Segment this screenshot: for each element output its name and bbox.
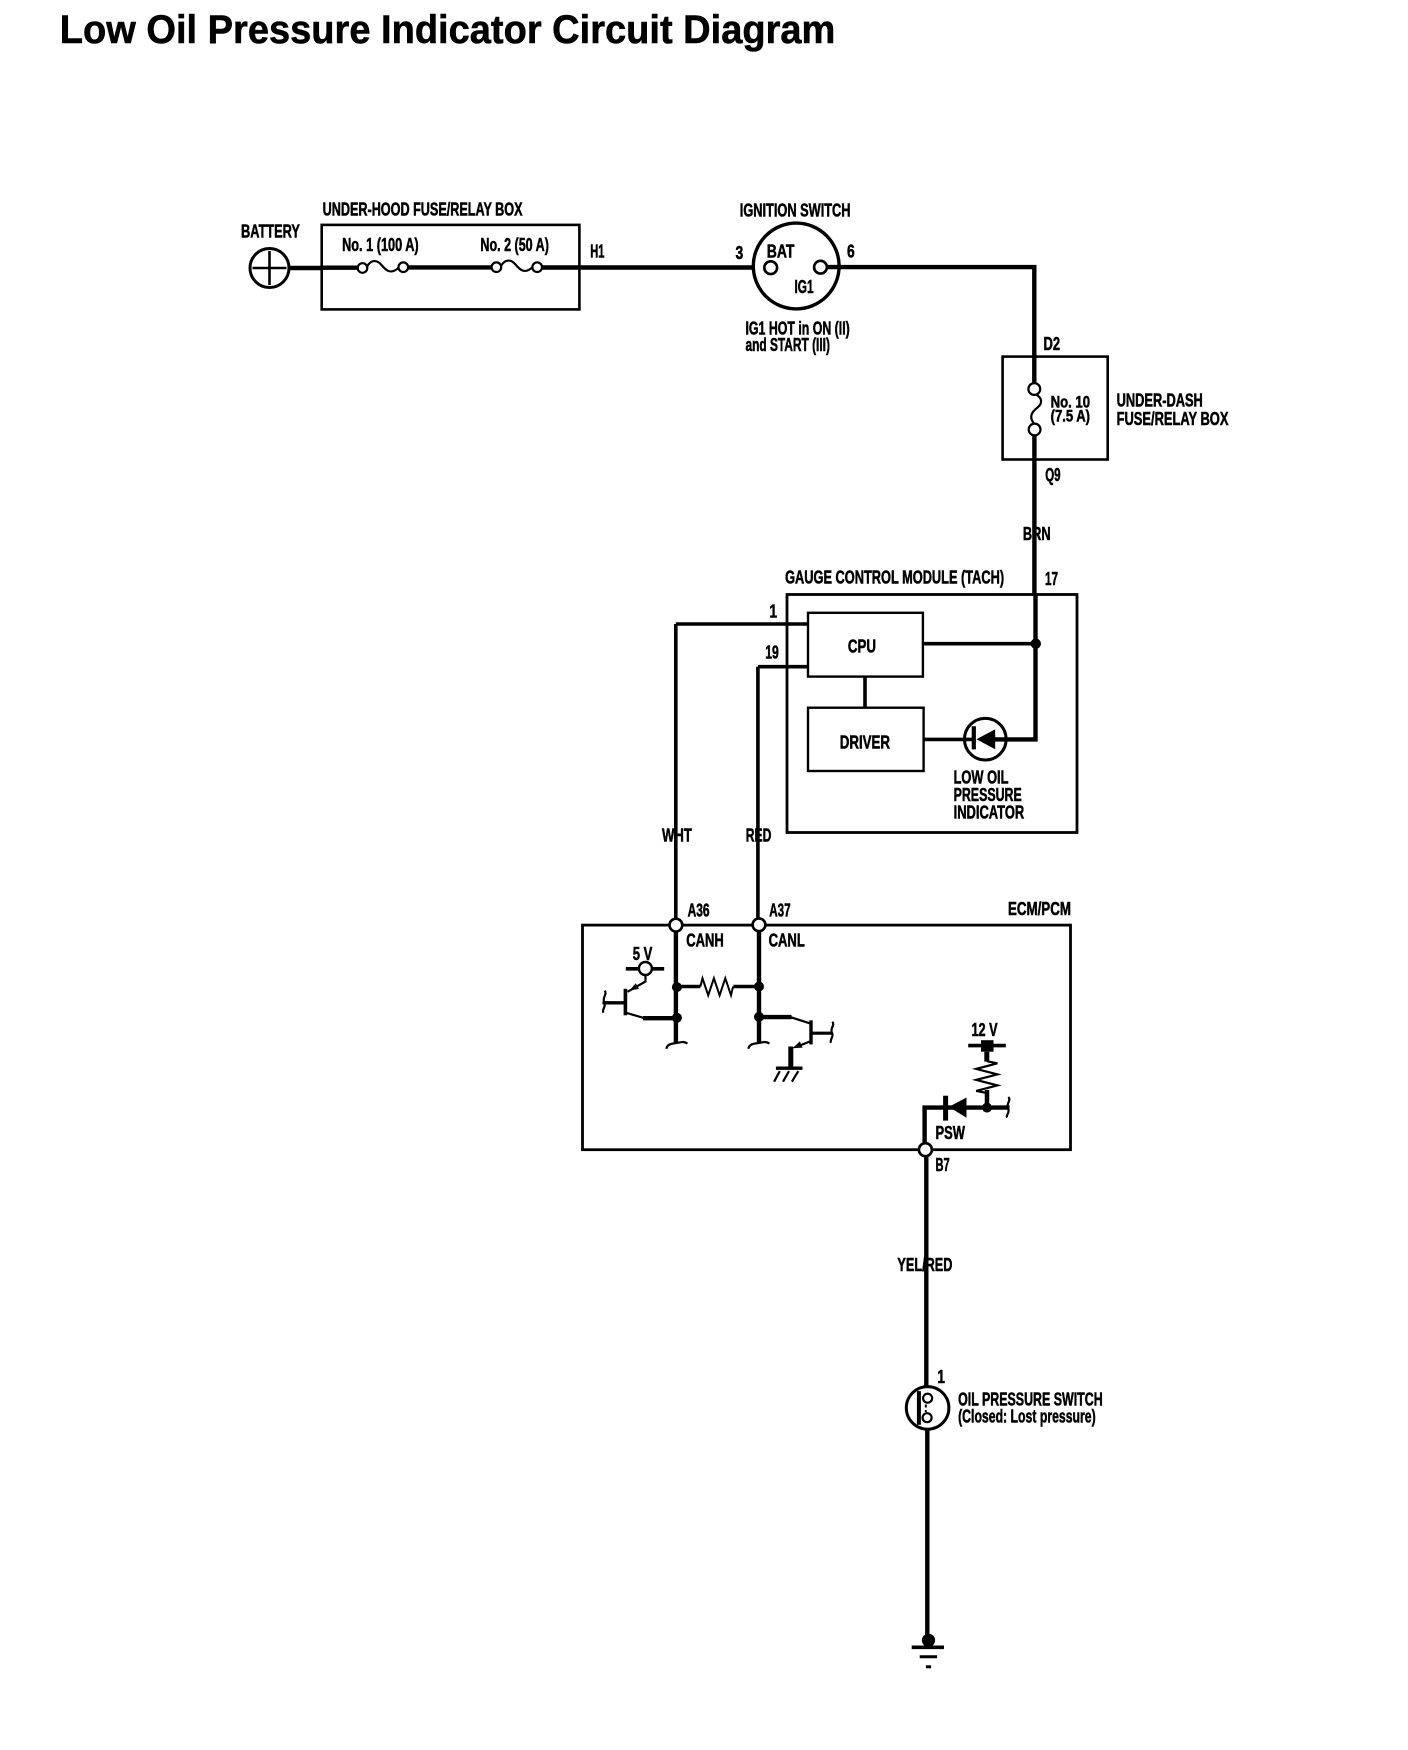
terminal A36 — [670, 919, 683, 932]
svg-text:(7.5 A): (7.5 A) — [1051, 408, 1090, 426]
resistor 12V pull-up — [976, 1052, 997, 1106]
CANL stub termination — [748, 1042, 769, 1049]
svg-text:BAT: BAT — [767, 242, 795, 262]
svg-text:PSW: PSW — [936, 1124, 966, 1144]
PSW stub termination — [1007, 1097, 1010, 1118]
battery — [250, 249, 289, 288]
fuse No.1 (100 A) — [358, 261, 408, 273]
junction dot CANL lower — [754, 1012, 764, 1022]
wire PSW net — [925, 1108, 1010, 1143]
svg-text:FUSE/RELAY BOX: FUSE/RELAY BOX — [1117, 410, 1229, 430]
CPU block — [808, 613, 923, 677]
wire pin 17 down to indicator LED — [995, 595, 1036, 740]
wire CANH internal — [674, 932, 678, 1044]
ignition switch terminal BAT — [764, 261, 777, 274]
svg-text:(Closed: Lost pressure): (Closed: Lost pressure) — [958, 1407, 1096, 1427]
svg-text:BRN: BRN — [1023, 525, 1051, 545]
svg-text:DRIVER: DRIVER — [840, 733, 891, 754]
terminal B7 (PSW) — [919, 1143, 932, 1156]
5 V supply symbol — [626, 962, 664, 975]
wire between fuses — [408, 265, 492, 269]
svg-text:GAUGE CONTROL MODULE (TACH): GAUGE CONTROL MODULE (TACH) — [785, 568, 1004, 588]
CANH stub termination — [666, 1042, 687, 1049]
svg-text:12 V: 12 V — [972, 1021, 998, 1041]
junction dot CANL upper — [754, 982, 764, 992]
svg-text:WHT: WHT — [662, 825, 692, 846]
wire transistor emitter to CANH — [643, 1016, 677, 1020]
wire CPU to pin-17 net — [923, 642, 1036, 646]
svg-text:1: 1 — [769, 602, 777, 622]
svg-text:YEL/RED: YEL/RED — [897, 1256, 952, 1276]
svg-text:UNDER-HOOD FUSE/RELAY BOX: UNDER-HOOD FUSE/RELAY BOX — [323, 200, 523, 220]
wire transistor emitter to ground — [788, 1047, 793, 1067]
wire RED: CPU pin 19 down to ECM A37 — [756, 667, 760, 919]
svg-text:RED: RED — [746, 826, 772, 846]
transistor CANL driver — [761, 1017, 833, 1048]
wire WHT: CPU pin 1 down to ECM A36 — [674, 624, 678, 919]
wire fuse No.10 to gauge module pin 17 — [1032, 435, 1036, 596]
svg-text:3: 3 — [736, 243, 744, 263]
svg-text:IG1: IG1 — [795, 278, 814, 298]
wire battery to fuse box — [289, 266, 323, 270]
low oil pressure indicator LED U-lamp — [965, 718, 1007, 760]
ignition switch terminal IG1 — [814, 261, 827, 274]
svg-text:B7: B7 — [936, 1155, 950, 1176]
wire pin 19 to CPU — [758, 665, 808, 669]
svg-text:INDICATOR: INDICATOR — [954, 804, 1025, 824]
terminal A37 — [753, 918, 766, 931]
svg-text:CPU: CPU — [848, 637, 876, 658]
svg-text:and START (III): and START (III) — [746, 335, 830, 355]
ground (CANL driver emitter) — [774, 1068, 802, 1082]
svg-text:1: 1 — [937, 1367, 945, 1387]
svg-text:5 V: 5 V — [633, 945, 653, 965]
junction dot on pin-17 net — [1031, 639, 1041, 649]
svg-text:A36: A36 — [688, 901, 710, 921]
diode PSW clamp — [943, 1096, 966, 1121]
svg-text:No. 1 (100 A): No. 1 (100 A) — [342, 236, 419, 256]
svg-text:D2: D2 — [1044, 335, 1061, 355]
wire CANL internal — [757, 931, 761, 1043]
svg-text:Q9: Q9 — [1045, 465, 1060, 485]
svg-text:19: 19 — [765, 643, 779, 663]
wire ignition IG1 to under-dash fuse box — [827, 267, 1034, 383]
gauge control module (tach) box — [787, 595, 1077, 833]
fuse No.10 (7.5 A) — [1028, 383, 1041, 435]
wire box edge to fuse No.1 — [322, 266, 358, 270]
svg-text:BATTERY: BATTERY — [241, 222, 300, 242]
svg-text:ECM/PCM: ECM/PCM — [1008, 899, 1071, 920]
wire CPU to DRIVER — [863, 677, 867, 708]
svg-text:CANL: CANL — [769, 931, 805, 951]
wire oil pressure switch to ground — [925, 1429, 929, 1638]
ignition switch body — [753, 223, 839, 309]
ECM/PCM box — [583, 925, 1071, 1150]
fuse No.2 (50 A) — [492, 261, 542, 272]
svg-text:17: 17 — [1045, 569, 1058, 589]
svg-text:6: 6 — [847, 242, 855, 262]
wire fuse box to ignition switch terminal 3 — [542, 265, 765, 269]
under-dash fuse/relay box — [1003, 357, 1108, 460]
DRIVER block — [808, 708, 924, 771]
wire YEL/RED to oil pressure switch — [924, 1156, 928, 1396]
junction dot CANH upper — [672, 982, 682, 992]
svg-text:UNDER-DASH: UNDER-DASH — [1117, 392, 1203, 412]
transistor CANH driver — [603, 975, 646, 1018]
oil pressure switch — [906, 1387, 949, 1430]
CAN termination resistor — [677, 978, 759, 995]
junction dot CANH lower — [672, 1013, 682, 1023]
svg-text:A37: A37 — [769, 901, 790, 921]
svg-text:H1: H1 — [590, 242, 605, 263]
12 V supply symbol — [968, 1040, 1006, 1052]
svg-text:Low Oil Pressure Indicator Cir: Low Oil Pressure Indicator Circuit Diagr… — [60, 9, 836, 53]
junction dot PSW-resistor — [982, 1103, 992, 1113]
ground G (engine ground) — [912, 1634, 944, 1667]
svg-text:No. 2 (50 A): No. 2 (50 A) — [480, 236, 548, 256]
wire DRIVER to indicator LED — [924, 738, 974, 742]
under-hood fuse/relay box — [322, 225, 580, 310]
svg-text:IGNITION SWITCH: IGNITION SWITCH — [740, 201, 851, 221]
svg-text:CANH: CANH — [686, 931, 724, 951]
wire pin 1 to CPU — [676, 622, 808, 626]
